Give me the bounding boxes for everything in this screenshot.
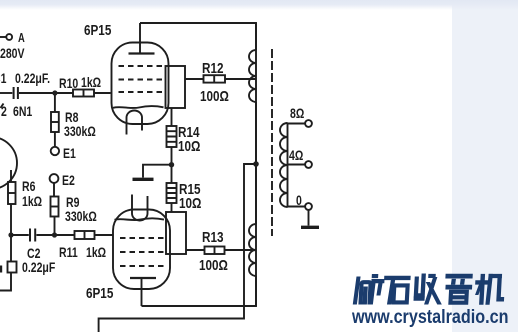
label R8 — [65, 110, 78, 124]
wire C1 to R10 — [19, 92, 73, 94]
transformer secondary winding — [280, 123, 287, 207]
transformer secondary axis — [287, 123, 289, 207]
tube V2 cathode — [132, 195, 148, 221]
wire screen to R12 — [185, 78, 204, 80]
resistor R13 — [205, 247, 225, 255]
tube V1 grid dashes — [119, 66, 166, 92]
tube V2 envelope 6P15 — [113, 210, 170, 290]
label 6P15 top — [84, 23, 111, 38]
wire tap 4 ohm — [288, 164, 306, 166]
wire tap 8 ohm — [288, 123, 306, 125]
label 6N1 — [1, 104, 7, 118]
node cathode junction — [169, 162, 174, 167]
label R13 — [202, 230, 223, 245]
transformer primary winding — [249, 50, 256, 276]
terminal 4 ohm — [305, 161, 312, 168]
node C2 left junction — [8, 232, 13, 237]
watermark www line — [352, 308, 508, 327]
wire B+ rail — [99, 164, 256, 332]
label A — [18, 32, 25, 45]
ground secondary — [301, 226, 319, 229]
resistor R6 — [8, 182, 16, 204]
watermark logo glyphs — [353, 274, 505, 304]
terminal E1 — [51, 147, 59, 155]
wire R11 to tube V2 grid — [95, 234, 113, 236]
tube V1 cathode — [127, 111, 143, 135]
transformer core — [271, 49, 273, 236]
wire junction to R8 — [54, 95, 56, 112]
fragment half label tick — [1, 104, 4, 109]
wire V1 plate to transformer — [140, 23, 256, 50]
wire screen V2 to R13 — [186, 249, 205, 251]
tube V1 plate — [129, 23, 155, 54]
wire C2 to R11 — [36, 234, 74, 236]
wire R6 to node — [10, 204, 12, 235]
wire cathode node to ground — [143, 165, 172, 178]
label 6P15 bottom — [86, 286, 113, 301]
resistor R8 — [51, 112, 59, 132]
label R11 1k — [59, 245, 78, 259]
terminal 8 ohm — [305, 120, 312, 127]
wire E2 to R9 — [53, 183, 55, 197]
wire node to C2 — [11, 234, 29, 236]
label 0.22uF — [15, 71, 50, 85]
tube V1 beam shield — [113, 106, 164, 108]
wire node down to R7 — [10, 237, 12, 262]
label 0 — [296, 193, 302, 207]
wire R9 to node — [54, 217, 56, 236]
top blue strip — [0, 0, 518, 10]
transformer primary axis — [255, 23, 257, 306]
glyph yin — [444, 274, 472, 304]
tube V2 grid dashes — [120, 238, 167, 266]
wire R8 to E1 — [54, 132, 56, 147]
fragment cut label — [0, 266, 2, 273]
tube 6N1 envelope arc — [0, 137, 17, 189]
resistor R7 partial — [8, 262, 17, 273]
label R15 — [179, 182, 200, 197]
terminal E2 — [50, 174, 59, 183]
node grid2 junction — [52, 232, 57, 237]
tube V2 screen box — [166, 212, 186, 254]
label R10 1k — [59, 76, 78, 90]
tube V2 beam shield — [115, 218, 165, 220]
glyph shi — [383, 276, 410, 304]
right light-blue sidebar — [452, 0, 518, 332]
wire R15 to tube V2 — [171, 203, 173, 212]
wire R12 to primary tap — [225, 78, 256, 80]
resistor R12 — [204, 75, 226, 82]
wire 0 to ground — [308, 210, 310, 226]
label C1 — [0, 71, 6, 85]
resistor R11 — [75, 231, 95, 239]
label E1 — [63, 146, 76, 160]
label E2 — [62, 173, 75, 187]
wire V2 plate to transformer bottom — [142, 276, 257, 306]
capacitor C2 — [30, 229, 35, 242]
wire 6N1 to R6 — [10, 170, 12, 182]
tube V1 envelope 6P15 — [112, 43, 169, 125]
wire R13 to primary tap — [225, 249, 257, 251]
label 8 ohm — [290, 106, 304, 120]
label 4 ohm — [289, 148, 303, 162]
label R6 — [22, 179, 35, 193]
node grid1 junction — [52, 90, 57, 95]
wire box to R14 — [171, 108, 173, 126]
label R9 — [66, 195, 79, 209]
resistor R9 — [51, 197, 59, 217]
wire R10 to tube V1 grid — [94, 92, 111, 94]
terminal 0 — [305, 203, 312, 210]
capacitor C1 — [14, 87, 18, 99]
label R14 — [178, 125, 199, 140]
resistor R10 — [73, 90, 94, 97]
resistor R15 — [167, 183, 177, 203]
glyph ji — [475, 274, 505, 304]
resistor R14 — [167, 126, 177, 147]
label C2 — [27, 246, 40, 260]
wire input to C1 — [0, 92, 12, 94]
tube V2 plate — [130, 278, 156, 306]
tube V1 screen box — [166, 66, 186, 108]
glyph shou — [414, 274, 443, 304]
wire tap 0 — [288, 206, 306, 208]
label R12 — [202, 61, 223, 76]
ground cathode — [133, 178, 154, 181]
terminal A — [0, 34, 12, 40]
label 280V — [0, 46, 25, 60]
node primary center tap B+ — [253, 161, 259, 167]
wire R7 to left edge — [0, 273, 11, 291]
wire R14 to cathode node — [171, 147, 173, 183]
glyph kuang — [353, 275, 384, 305]
